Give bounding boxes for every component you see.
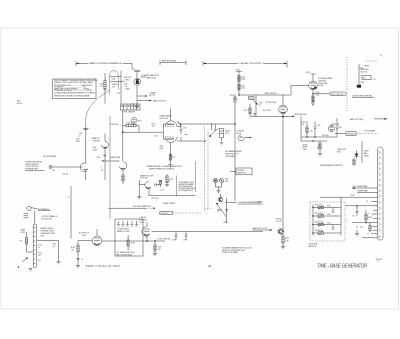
svg-text:NETWORK: NETWORK [309,246,318,248]
row 2 variable resistor [312,215,313,216]
svg-text:4A.: 4A. [208,264,212,268]
svg-text:+TRIG PICKOFF: +TRIG PICKOFF [294,114,307,116]
svg-text:R167: R167 [241,85,245,87]
stray mark [381,55,382,56]
svg-text:R330: R330 [368,217,372,219]
connector pin stubs [366,201,378,235]
svg-text:TERM: TERM [21,229,26,231]
svg-text:R110 500K: R110 500K [111,124,120,126]
cathode lead and node [282,114,284,117]
svg-text:R188: R188 [303,149,307,151]
svg-text:SW370: SW370 [364,65,369,67]
svg-text:R103: R103 [93,147,97,149]
gate resistor [154,241,156,245]
svg-text:R174 22K: R174 22K [152,198,160,200]
wire to horizontal amplifier [227,198,238,223]
cathode wire down [312,90,314,103]
arrow diag [22,258,28,263]
svg-text:47: 47 [38,247,40,249]
svg-text:C168: C168 [249,98,253,100]
svg-text:+ SWEEP: + SWEEP [149,92,156,94]
svg-text:SAWTOOTH MULTIVIBRATOR: SAWTOOTH MULTIVIBRATOR [90,62,123,65]
plate wire right upper [177,122,235,124]
resistor R165 horizontal [126,124,136,127]
svg-text:HOLD OFF: HOLD OFF [124,77,132,79]
wire to strip [34,211,36,224]
svg-text:.01: .01 [259,105,261,107]
arrow sawtooth out [137,100,151,102]
switch blade diagonal [209,128,219,137]
svg-text:R131: R131 [100,84,104,86]
tube V152B [279,105,288,114]
svg-text:+ MILLER: + MILLER [140,217,148,219]
svg-text:FOLLOWER: FOLLOWER [318,83,328,85]
wire grid bus [120,71,122,104]
output tube dark [278,229,284,235]
svg-text:CF V199: CF V199 [276,221,282,223]
svg-text:SW260: SW260 [225,130,230,132]
grid wire from left [123,131,164,133]
svg-text:NORM: NORM [364,151,369,153]
svg-text:.05: .05 [79,136,81,138]
svg-text:MULTI: MULTI [237,133,242,135]
svg-text:R184 1M: R184 1M [322,135,329,137]
svg-text:STABILITY: STABILITY [92,137,101,140]
dashed segments [366,60,378,62]
svg-text:R172 100K: R172 100K [263,110,272,112]
tube V135A envelope (dome) [110,71,119,94]
grid return wire [195,161,197,192]
plate lead up [169,109,171,121]
ground [76,266,80,268]
svg-text:1 MEG: 1 MEG [125,89,131,91]
svg-text:R160: R160 [131,243,135,245]
svg-text:CIRCUIT NUMBERS CONDENSED WI: CIRCUIT NUMBERS CONDENSED WIRING CODES S… [54,80,97,82]
svg-text:SWEEP HOLDOFF: SWEEP HOLDOFF [140,176,153,178]
left resistor column [78,241,92,245]
junction [104,155,105,156]
svg-text:SWEEP SW: SWEEP SW [237,172,246,174]
svg-text:R190: R190 [337,152,341,154]
selector circle [27,206,31,210]
small tube V180 [328,125,334,131]
svg-text:RUNUP CF: RUNUP CF [140,219,148,221]
svg-text:C105: C105 [79,133,83,135]
resistor below [122,175,124,181]
svg-text:SERIES .01-1000: SERIES .01-1000 [117,231,129,233]
svg-text:OTHERWISE SPECIFIED —————————: OTHERWISE SPECIFIED ————————— NOTED [54,90,93,92]
trimmer capacitor C168 [249,97,255,100]
resistor R332 [369,223,371,226]
resistor R131 plate load [104,73,106,104]
arrow external sawtooth amplitude [141,76,147,78]
cap stub [76,258,79,259]
cathode wire W1 [102,240,165,242]
dimension line: SAWTOOTH MULTIVIBRATOR [76,61,132,67]
svg-text:B167: B167 [138,120,142,122]
svg-text:OUTPUT: OUTPUT [276,219,282,221]
svg-text:.01: .01 [81,259,83,261]
svg-text:SEE: SEE [17,101,20,103]
svg-text:J30: J30 [53,170,56,172]
svg-text:16: 16 [367,233,369,235]
svg-text:C196: C196 [172,240,176,242]
run 1 [352,187,378,189]
svg-text:.05: .05 [125,86,127,88]
coupling cap [155,183,161,186]
voltage measurement note [222,246,253,254]
wire run 2 [352,222,378,224]
run 3 [320,196,378,198]
svg-text:LOCKOUT: LOCKOUT [161,213,169,215]
wire to disconnect diode [105,160,120,162]
right wire column [37,241,59,262]
capacitor C180 [313,122,316,138]
svg-text:HOLDOFF CF: HOLDOFF CF [79,233,89,235]
dashed mechanical link [346,57,348,112]
curved wire to stability bus [86,90,110,126]
resistor R330 [365,210,367,214]
svg-text:SAWTOOTH OUT: SAWTOOTH OUT [153,99,167,102]
svg-text:R182: R182 [302,122,306,124]
tube V161A upper shell [165,121,177,127]
svg-text:NO TRIGGER INPUT: NO TRIGGER INPUT [179,190,194,192]
branch wire [256,95,283,116]
svg-text:V173B: V173B [318,85,323,87]
pot box [362,76,371,80]
svg-text:R195: R195 [158,246,162,248]
svg-text:+350V: +350V [235,70,241,72]
svg-text:R261: R261 [225,133,229,135]
tube V161B lower shell [165,136,177,142]
svg-text:R171: R171 [244,110,248,112]
row 1 variable resistor [312,207,313,208]
resistor R171 [249,108,251,114]
svg-text:SWEEP LENGTH: SWEEP LENGTH [163,203,175,205]
svg-text:TIME - BASE GENERATOR: TIME - BASE GENERATOR [317,264,367,270]
svg-text:DELAY PICKOFF: DELAY PICKOFF [240,62,262,65]
dimension line: DELAY PICKOFF [203,61,287,68]
svg-text:R313 45M: R313 45M [315,230,323,232]
row 3 variable resistor [312,224,313,225]
svg-text:C164: C164 [169,179,173,181]
resistor R174 [312,96,314,102]
switch blade to linkage [216,203,226,217]
svg-text:+ GATE OUT (CAL): + GATE OUT (CAL) [349,118,364,121]
svg-text:SWITCH IN EXT 1X: SWITCH IN EXT 1X [26,164,40,166]
diode D190 [355,154,359,157]
input jack [49,166,52,169]
wire to delayed trigger out box [313,93,330,95]
svg-text:STRIP: STRIP [21,232,26,234]
svg-text:R183: R183 [71,247,75,249]
svg-text:R105: R105 [76,139,80,141]
svg-text:C310: C310 [327,206,331,208]
ground [355,234,359,236]
resistor R182 [306,121,308,127]
switch contacts [24,214,27,218]
svg-text:REGIS: REGIS [303,147,308,149]
ground [135,107,139,109]
tube V145 (dark) [134,78,141,85]
wire to mag register box [335,133,346,135]
svg-text:R240: R240 [230,95,234,97]
internal right bus [340,197,342,235]
svg-text:PART 2 PLUG-IN UNIT: PART 2 PLUG-IN UNIT [86,265,120,268]
svg-text:C180: C180 [317,125,321,127]
svg-text:R41 1M: R41 1M [63,174,69,176]
svg-text:C101: C101 [38,244,42,246]
plate wire W2 [152,231,263,233]
svg-text:DLY'D TRIG OUT: DLY'D TRIG OUT [331,94,343,96]
svg-text:C169: C169 [259,102,263,104]
svg-text:R162: R162 [152,124,156,126]
plate wire right lower [177,140,204,142]
capacitor C104 [102,160,105,161]
row 4 variable resistor [312,232,313,233]
capacitor C140 top [134,70,140,78]
lockout transistor [218,197,223,202]
trig pickoff wire down [300,116,302,141]
svg-text:V262: V262 [225,179,229,181]
svg-text:C140: C140 [131,68,135,70]
svg-text:1 MEG: 1 MEG [125,79,131,81]
svg-text:.047: .047 [360,227,363,229]
wire run [345,205,378,207]
cathode wire [136,85,138,106]
dot [18,266,19,267]
svg-text:C160: C160 [124,84,128,86]
wire [52,166,79,168]
ground [318,154,322,156]
svg-text:6DJ8: 6DJ8 [160,148,164,150]
long wire down to output stage [282,117,284,232]
bus wire from multivib curve [85,126,87,163]
tube V173A [145,181,150,188]
svg-text:R164: R164 [171,157,175,159]
svg-text:8: 8 [169,181,170,183]
wire [358,64,360,88]
svg-text:DIODE V152B: DIODE V152B [266,102,276,104]
grid bracket [163,124,168,139]
capacitor on bus [83,128,89,130]
grid wire from bus [291,86,309,96]
arrow +trig pickoff [283,115,294,117]
input CF tube half [80,163,86,171]
disconnect diode tube arc [119,162,127,170]
resistor R175 [160,181,162,185]
resistor R166 [238,76,240,82]
tube V173B [309,81,318,90]
bus wire [301,136,337,138]
svg-text:V193: V193 [140,222,144,224]
svg-text:C104: C104 [97,157,101,159]
svg-text:SWEEP IN FREE-RUN CONDITION: SWEEP IN FREE-RUN CONDITION [149,169,174,171]
cathode lead [149,189,196,196]
svg-text:R310 45K: R310 45K [315,205,323,207]
svg-text:2 MEG: 2 MEG [93,150,99,152]
grid return and ground [138,180,140,196]
terminal strip [33,224,37,268]
plate coupling caps between triodes [180,124,188,141]
neon lamp B167 [131,117,137,123]
svg-text:C161: C161 [183,127,187,129]
svg-text:SW190: SW190 [364,155,369,157]
cathode drop [169,143,170,160]
svg-text:1-10: 1-10 [373,79,376,81]
arrow sweep cal out [137,95,147,97]
svg-text:NOTE 2: NOTE 2 [17,103,23,105]
svg-text:C197: C197 [183,240,187,242]
svg-text:INSTRUMENT: INSTRUMENT [226,156,236,158]
left resistor [26,232,28,238]
cap bank [117,221,138,226]
svg-text:R165 1M: R165 1M [127,122,134,124]
svg-text:C163: C163 [154,136,158,138]
coupling caps under W2 [174,232,177,241]
tube V135A electrodes [110,76,118,81]
svg-text:HORIZ: HORIZ [303,144,308,146]
svg-text:R311 450K: R311 450K [315,213,324,215]
svg-text:TEXT: TEXT [41,235,45,237]
ground [281,246,285,248]
internal left bus [312,205,314,236]
resistor inside [127,240,129,246]
plate wire [118,76,124,81]
switch wafer SW235 [220,129,231,146]
svg-text:14: 14 [366,201,368,203]
svg-text:C141: C141 [117,92,121,94]
resistor R167 [238,84,240,90]
wire run 3 [362,237,378,239]
svg-text:GERED THE SWEEP: GERED THE SWEEP [179,184,194,186]
svg-text:.05: .05 [101,169,103,171]
trigger takeoff switch box [121,104,141,110]
svg-text:FROM FRONT OF: FROM FRONT OF [226,154,239,156]
svg-text:R180: R180 [224,222,228,224]
svg-text:9: 9 [368,214,369,216]
svg-text:RW 8-62: RW 8-62 [376,259,382,261]
svg-text:X10: X10 [38,260,41,262]
cathode down [85,171,87,180]
node junction [238,94,240,96]
svg-text:MULTI V161: MULTI V161 [160,118,169,120]
long riser wire [109,116,111,219]
pot registration [319,143,321,149]
cathode resistor R164 [169,154,171,160]
ground [311,103,315,105]
svg-text:R199: R199 [285,238,289,240]
cap marks [253,114,256,115]
svg-text:R166: R166 [241,77,245,79]
plate lead [282,95,284,105]
svg-text:C312: C312 [327,223,331,225]
svg-text:R376: R376 [361,82,365,84]
svg-text:25: 25 [68,197,70,199]
resistor R191 [353,159,355,165]
svg-text:V183: V183 [82,235,86,237]
dark connector block [357,85,361,88]
resistor R199 [282,233,284,236]
delayed trigger out box [330,92,346,96]
capacitor .001 [355,206,358,216]
capacitor C181 [335,118,338,137]
run 2 [357,192,378,194]
svg-text:TRIGGER: TRIGGER [93,140,101,142]
tube V193 arc [142,227,147,237]
svg-text:PLUG-IN UNIT: PLUG-IN UNIT [42,218,52,220]
ground [29,269,33,271]
notes box [53,79,98,99]
svg-text:R101: R101 [53,244,57,246]
svg-text:OR EXT 10X FOR: OR EXT 10X FOR [26,166,39,168]
wire bus to right [239,94,291,96]
cathode to W1 [146,236,148,241]
svg-text:R375 50K: R375 50K [361,71,369,73]
svg-text:V161: V161 [160,146,164,148]
svg-text:C311: C311 [327,214,331,216]
svg-text:R312 4.5M: R312 4.5M [315,222,323,224]
tube V183 [92,236,102,246]
svg-text:.001: .001 [310,131,313,133]
svg-text:.001: .001 [352,215,355,217]
svg-text:5651: 5651 [225,181,229,183]
dimension line: AMPLITUDE CALIBRATOR [160,60,186,65]
tube V101 arc [101,141,108,148]
svg-text:R102: R102 [38,252,42,254]
wire norm mag [361,141,363,163]
